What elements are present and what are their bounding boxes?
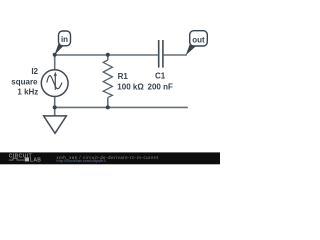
svg-text:I2: I2: [31, 67, 38, 76]
svg-text:200 nF: 200 nF: [148, 82, 173, 91]
svg-text:R1: R1: [118, 72, 129, 81]
wire resistor bottom stub: [107, 98, 109, 108]
junction dot resistor top: [106, 53, 110, 57]
svg-text:in: in: [61, 35, 68, 44]
node flag in box: [59, 31, 71, 46]
junction dot node in: [53, 53, 57, 57]
watermark CircuitLab logo box: [25, 158, 29, 162]
current source I2 arrow: [54, 72, 57, 90]
node flag out tail: [186, 43, 197, 56]
capacitor C1 left plate: [158, 40, 160, 68]
current source I2 circle: [41, 70, 68, 97]
svg-text:out: out: [192, 35, 205, 44]
watermark CircuitLab logo squarewave: [9, 158, 25, 160]
watermark bar: [0, 152, 220, 164]
svg-text:C1: C1: [155, 72, 166, 81]
wire ground stem: [54, 107, 56, 116]
resistor R1 zigzag: [103, 60, 112, 98]
wire source top: [54, 55, 56, 71]
ground symbol triangle: [44, 116, 67, 133]
wire capacitor to out tail: [164, 54, 187, 56]
current source I2 waveform squiggle: [47, 76, 62, 89]
wire resistor top stub: [107, 55, 109, 61]
svg-text:100 kΩ: 100 kΩ: [117, 82, 144, 91]
wire bottom rail: [55, 106, 188, 108]
wire top (node in to resistor to capacitor): [55, 54, 158, 56]
node flag in tail: [54, 42, 64, 55]
junction dot ground: [53, 105, 57, 109]
capacitor C1 right plate: [162, 40, 164, 68]
svg-text:http://circuitlab.com/c/6ps8r3: http://circuitlab.com/c/6ps8r3: [57, 159, 106, 163]
svg-text:LAB: LAB: [30, 157, 41, 163]
node flag out box: [190, 31, 208, 46]
wire source bottom: [54, 96, 56, 107]
svg-text:1 kHz: 1 kHz: [17, 87, 38, 96]
junction dot resistor bottom: [106, 105, 110, 109]
svg-text:square: square: [11, 77, 38, 86]
